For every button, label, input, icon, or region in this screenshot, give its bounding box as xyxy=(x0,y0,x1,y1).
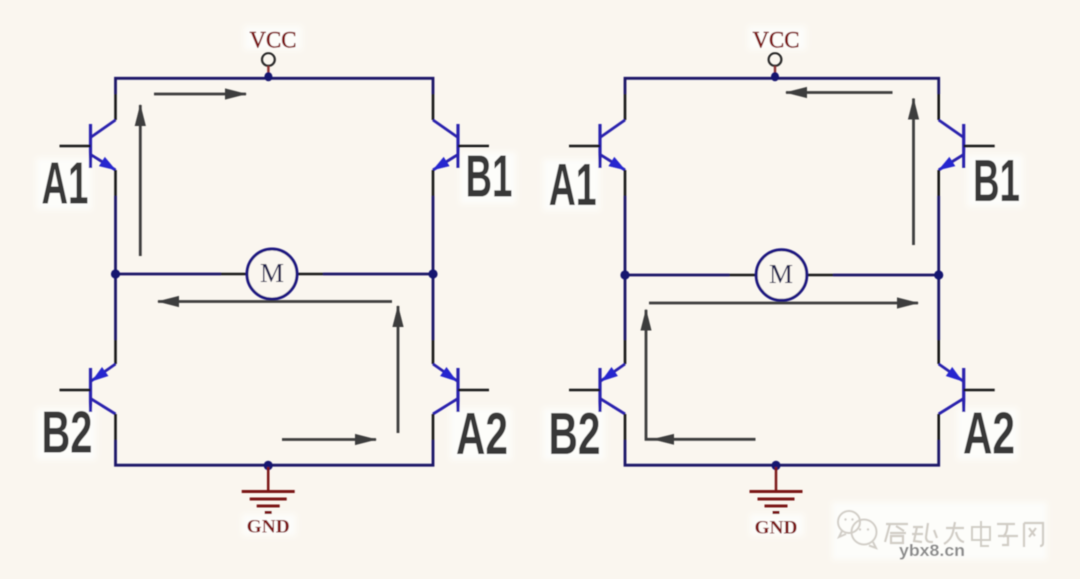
node GND junction right xyxy=(772,461,781,470)
svg-text:ybx8.cn: ybx8.cn xyxy=(899,542,965,560)
current arrow top-left (R1) xyxy=(786,91,893,94)
svg-text:B1: B1 xyxy=(973,148,1020,214)
transistor A1 xyxy=(60,94,116,196)
svg-text:A1: A1 xyxy=(42,151,89,217)
motor M right xyxy=(756,250,807,301)
current arrow top-right (L1) xyxy=(154,93,246,96)
transistor B1 right xyxy=(939,94,995,196)
wire left leg upper xyxy=(114,196,117,340)
wire top rail left xyxy=(116,78,434,94)
wire right leg upper right circuit xyxy=(937,196,940,340)
svg-text:A2: A2 xyxy=(456,401,508,467)
node middle-left junction xyxy=(111,269,120,278)
node middle-right junction right circuit xyxy=(934,270,943,279)
transistor A2 xyxy=(433,340,489,440)
wire middle left xyxy=(116,273,222,276)
svg-text:M: M xyxy=(769,259,793,289)
svg-text:GND: GND xyxy=(755,518,798,539)
current arrow up (L2) xyxy=(139,105,142,256)
transistor B2 xyxy=(60,340,116,440)
svg-text:B1: B1 xyxy=(466,144,513,210)
wire middle right xyxy=(323,273,433,276)
svg-text:A1: A1 xyxy=(549,152,597,218)
svg-text:A2: A2 xyxy=(963,400,1015,466)
svg-text:B2: B2 xyxy=(42,400,93,466)
watermark chinese text xyxy=(885,521,1043,547)
transistor B2 right xyxy=(569,340,625,440)
svg-text:GND: GND xyxy=(247,517,290,538)
current arrow right long (R3) xyxy=(649,302,918,305)
VCC symbol right xyxy=(753,27,800,74)
current arrow up (R2) xyxy=(912,99,915,246)
svg-text:B2: B2 xyxy=(549,401,601,467)
current arrow L-shape polyline (R4/R5) xyxy=(646,310,756,440)
wire middle left right circuit xyxy=(625,274,730,277)
transistor A1 right xyxy=(569,94,625,196)
node VCC junction right xyxy=(771,72,779,81)
motor lead left right circuit xyxy=(730,274,757,277)
wire top rail right xyxy=(625,78,939,94)
node VCC junction left xyxy=(264,72,272,81)
current arrow up lower (L4) xyxy=(397,306,400,433)
svg-text:M: M xyxy=(260,258,284,288)
node middle-right junction xyxy=(428,269,437,278)
wire left leg upper right circuit xyxy=(624,196,627,340)
node GND junction left xyxy=(264,461,273,470)
motor lead right right circuit xyxy=(807,274,834,277)
ground symbol left xyxy=(242,467,295,513)
wire middle right right circuit xyxy=(833,274,939,277)
wire left leg lower xyxy=(116,440,434,465)
ground symbol right xyxy=(750,467,803,513)
current arrow right bottom (L5) xyxy=(282,438,376,441)
svg-text:VCC: VCC xyxy=(753,27,800,53)
motor lead left xyxy=(221,273,247,276)
motor M left xyxy=(247,249,297,299)
current arrowhead left (R4) xyxy=(652,434,674,445)
wire right leg upper xyxy=(432,196,435,340)
watermark wechat logo xyxy=(838,511,877,548)
transistor B1 xyxy=(433,94,489,196)
VCC symbol left xyxy=(250,27,297,74)
transistor A2 right xyxy=(939,340,995,440)
current arrow left long (L3) xyxy=(158,300,392,303)
motor lead right xyxy=(297,273,323,276)
svg-text:VCC: VCC xyxy=(250,27,297,53)
node middle-left junction right circuit xyxy=(620,270,629,279)
wire bottom rail right xyxy=(625,440,939,465)
